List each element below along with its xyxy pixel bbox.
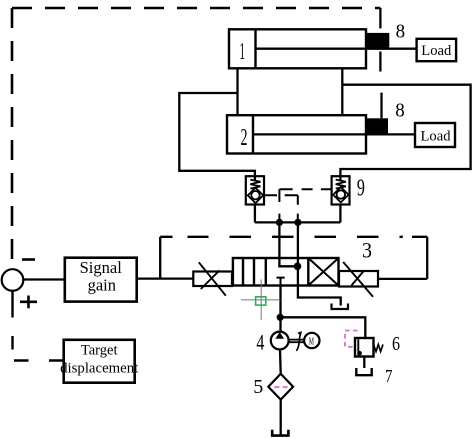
node: summing junction: [2, 269, 24, 291]
svg-text:3: 3: [362, 238, 372, 263]
svg-text:Load: Load: [421, 127, 451, 144]
filter 5 element (magenta dashed): [274, 386, 287, 388]
relief valve 6 body: [355, 338, 374, 357]
svg-text:Signal: Signal: [80, 258, 123, 277]
wire: signal gain to valve solenoid: [137, 277, 194, 279]
pump 4 triangle: [275, 332, 284, 339]
pipe: right chamber loop to right check valve: [340, 85, 470, 177]
wire: right solenoid to dashed box: [378, 278, 427, 280]
shaft pump to motor: [289, 340, 305, 343]
valve 3 body: [233, 258, 339, 286]
cylinder 1 piston divider: [254, 29, 256, 68]
relief valve 6 spring: [374, 345, 384, 352]
pilot line: check valve 9b to left branch (dashed): [279, 189, 331, 222]
wire: dashed line from target displacement to summing junction: [13, 291, 64, 361]
valve 3 blocked P port symbol: [277, 278, 285, 286]
cylinder 2 piston divider: [252, 115, 254, 153]
pipe: cylinder1 to cylinder2 right link: [341, 68, 343, 115]
cylinder 2 rod: [253, 133, 415, 135]
cylinder 1 rod end mass (black square): [367, 33, 390, 49]
check valve 9b seat diamond: [333, 187, 348, 202]
pipe: filter to tank: [280, 400, 282, 436]
valve 3 left solenoid cross: [199, 262, 226, 295]
valve 3 right proportional solenoid box: [339, 271, 378, 287]
relief valve 6 internal line: [357, 339, 359, 355]
svg-text:1: 1: [240, 39, 246, 65]
valve 3 section divider: [307, 258, 309, 286]
pilot dashed box over valve 3: right vertical: [426, 237, 428, 279]
block: load box 2: [415, 123, 455, 147]
pipe: check valve 9a lower line: [254, 205, 256, 223]
pilot line: check valve 9a to right branch (dashed): [264, 195, 298, 222]
cylinder 1 body: [229, 29, 366, 68]
pipe: to relief valve: [280, 317, 365, 338]
block: target displacement box: [64, 340, 135, 383]
label: minus sign: [22, 258, 35, 261]
shaft rotation arrow: [296, 334, 300, 351]
check valve 9a ball: [251, 191, 259, 199]
node: junction B: [294, 219, 301, 226]
wire: position sensor tap cylinder 2: [380, 93, 382, 119]
wire: position sensor tap cylinder 1: [379, 8, 381, 72]
wire: feedback dashed line left vertical: [11, 8, 14, 269]
svg-text:M: M: [309, 335, 314, 347]
node: junction A: [276, 219, 283, 226]
node: pump junction: [277, 314, 284, 321]
pump 4 circle: [271, 332, 289, 350]
svg-text:2: 2: [241, 125, 248, 151]
svg-text:8: 8: [395, 100, 405, 122]
valve 3 crossed arrows position: [308, 258, 338, 286]
check valve 9b ball: [337, 190, 345, 198]
pipe: relief valve to tank: [363, 357, 365, 369]
svg-text:6: 6: [392, 333, 400, 355]
valve 3 left proportional solenoid box: [193, 272, 232, 287]
wire: summing junction to signal gain: [23, 278, 65, 280]
check valve 9a spring: [250, 180, 260, 189]
magenta dashed artifact box: [345, 331, 358, 347]
green square artifact: [256, 297, 266, 305]
pipe: left chamber line to left check valve: [179, 93, 255, 176]
crosshair artifact horizontal: [241, 299, 280, 301]
svg-text:8: 8: [396, 21, 406, 43]
pipe: pump suction: [279, 349, 282, 373]
check valve 9a body: [246, 176, 264, 204]
crosshair artifact vertical: [260, 280, 262, 321]
pipe: B port drop through valve 3 to tank: [298, 222, 341, 305]
filter 5 diamond: [268, 374, 293, 400]
pipe: manifold between check valves: [255, 221, 341, 223]
svg-text:4: 4: [256, 330, 264, 355]
pipe: A port drop into valve 3: [279, 222, 297, 266]
cylinder 1 rod: [256, 48, 417, 50]
svg-text:7: 7: [385, 366, 393, 386]
node: junction inside valve: [294, 263, 302, 271]
pipe: pump pressure line: [279, 286, 281, 332]
tank symbol main: [272, 430, 288, 436]
svg-text:displacement: displacement: [60, 360, 139, 376]
pipe: cylinder1 to cylinder2 left link: [236, 68, 238, 115]
check valve 9b spring: [336, 180, 346, 189]
valve 3 right solenoid cross: [343, 262, 373, 297]
tank symbol relief: [356, 368, 371, 375]
pilot dashed box over valve 3: left vertical: [159, 237, 161, 278]
svg-text:Load: Load: [421, 42, 451, 59]
check valve 9a seat diamond: [248, 188, 263, 203]
tank symbol at valve T-port: [332, 304, 349, 310]
block: signal gain box: [65, 258, 137, 302]
label: plus sign: [20, 296, 37, 309]
svg-text:5: 5: [253, 376, 263, 398]
pipe: check valve 9b lower line: [339, 205, 341, 223]
pilot dashed box over valve 3: top dashed: [160, 236, 427, 238]
svg-text:9: 9: [357, 175, 365, 201]
svg-text:gain: gain: [88, 276, 116, 295]
check valve 9b body: [332, 176, 350, 204]
motor M circle: [304, 333, 319, 348]
wire: feedback dashed line top horizontal: [12, 7, 380, 10]
svg-text:Target: Target: [81, 343, 118, 359]
relief valve 6 internal dot: [357, 351, 362, 356]
valve 3 left section bars: [243, 258, 266, 286]
block: load box 1: [417, 39, 457, 61]
cylinder 2 rod end mass (black square): [366, 118, 388, 134]
cylinder 2 body: [227, 115, 366, 153]
